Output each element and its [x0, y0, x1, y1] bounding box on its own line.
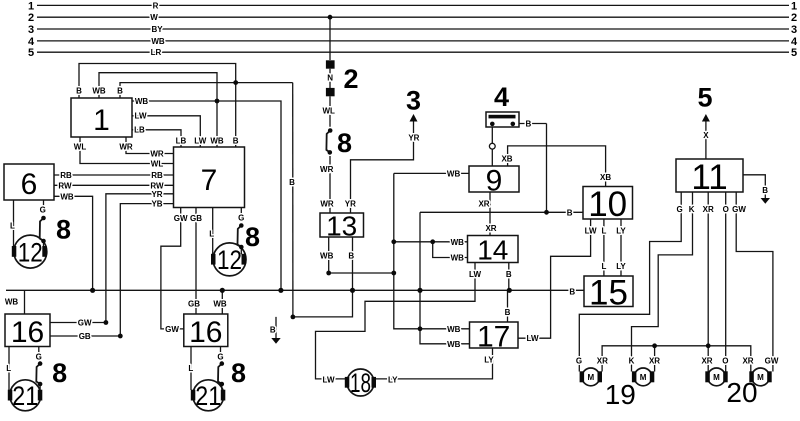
svg-text:12: 12	[18, 237, 43, 267]
svg-text:2: 2	[343, 64, 358, 94]
svg-text:G: G	[576, 356, 582, 365]
svg-text:GW: GW	[174, 214, 188, 223]
svg-text:WB: WB	[451, 238, 465, 247]
svg-text:N: N	[327, 73, 333, 82]
svg-text:L: L	[10, 222, 15, 231]
svg-text:BY: BY	[151, 25, 163, 34]
svg-text:B: B	[762, 186, 768, 195]
svg-text:WB: WB	[447, 325, 461, 334]
svg-text:XR: XR	[703, 205, 714, 214]
svg-text:XR: XR	[478, 199, 489, 208]
svg-text:WB: WB	[92, 87, 106, 96]
svg-text:G: G	[36, 353, 42, 362]
svg-text:L: L	[6, 364, 11, 373]
svg-text:5: 5	[791, 47, 797, 59]
svg-text:4: 4	[791, 36, 798, 48]
svg-text:8: 8	[245, 222, 260, 252]
svg-text:6: 6	[21, 168, 38, 201]
svg-text:WB: WB	[135, 97, 149, 106]
svg-text:YR: YR	[151, 190, 162, 199]
svg-text:16: 16	[11, 316, 44, 349]
svg-text:WB: WB	[451, 254, 465, 263]
svg-text:9: 9	[486, 164, 503, 197]
svg-text:B: B	[506, 270, 512, 279]
svg-text:G: G	[40, 206, 46, 215]
svg-text:R: R	[153, 1, 159, 10]
svg-text:RW: RW	[58, 181, 72, 190]
svg-text:M: M	[713, 373, 720, 382]
svg-text:B: B	[505, 308, 511, 317]
svg-text:LY: LY	[616, 227, 626, 236]
svg-text:RB: RB	[151, 171, 163, 180]
svg-text:G: G	[238, 214, 244, 223]
svg-text:WB: WB	[213, 300, 227, 309]
svg-text:LY: LY	[484, 356, 494, 365]
svg-text:WR: WR	[320, 165, 334, 174]
svg-text:XB: XB	[501, 154, 512, 163]
svg-text:10: 10	[588, 185, 627, 224]
svg-text:4: 4	[28, 36, 35, 48]
svg-text:L: L	[601, 262, 606, 271]
svg-text:M: M	[757, 373, 764, 382]
svg-text:XB: XB	[600, 173, 611, 182]
svg-text:L: L	[188, 364, 193, 373]
svg-text:LW: LW	[585, 227, 597, 236]
svg-text:YR: YR	[408, 134, 419, 143]
svg-text:LW: LW	[194, 137, 206, 146]
svg-text:O: O	[723, 205, 729, 214]
svg-text:XR: XR	[485, 224, 496, 233]
svg-text:WB: WB	[320, 252, 334, 261]
svg-text:GB: GB	[190, 214, 202, 223]
svg-text:YB: YB	[151, 200, 162, 209]
svg-text:LY: LY	[388, 375, 398, 384]
svg-text:8: 8	[337, 128, 352, 158]
svg-text:W: W	[150, 13, 158, 22]
svg-text:XR: XR	[649, 356, 660, 365]
svg-text:B: B	[76, 87, 82, 96]
svg-text:13: 13	[326, 211, 357, 242]
svg-text:WL: WL	[74, 142, 87, 151]
svg-text:8: 8	[231, 358, 246, 388]
svg-text:5: 5	[697, 83, 712, 113]
svg-text:WB: WB	[151, 37, 165, 46]
svg-text:14: 14	[477, 235, 508, 266]
svg-text:WB: WB	[60, 192, 74, 201]
svg-text:LB: LB	[176, 137, 187, 146]
svg-text:B: B	[348, 252, 354, 261]
svg-text:WB: WB	[447, 340, 461, 349]
svg-text:WR: WR	[119, 142, 133, 151]
svg-text:12: 12	[217, 245, 242, 275]
svg-text:17: 17	[477, 320, 510, 353]
svg-text:LW: LW	[135, 112, 147, 121]
svg-text:3: 3	[406, 86, 421, 116]
svg-text:WR: WR	[320, 200, 334, 209]
svg-text:GW: GW	[165, 325, 179, 334]
svg-text:LR: LR	[151, 48, 162, 57]
svg-text:XR: XR	[701, 356, 712, 365]
svg-text:LB: LB	[134, 126, 145, 135]
svg-text:1: 1	[791, 0, 797, 12]
svg-text:8: 8	[52, 358, 67, 388]
svg-text:21: 21	[195, 381, 221, 411]
svg-text:L: L	[601, 227, 606, 236]
svg-text:XR: XR	[597, 356, 608, 365]
svg-text:K: K	[629, 356, 635, 365]
svg-text:GB: GB	[79, 332, 91, 341]
svg-text:GW: GW	[765, 356, 779, 365]
svg-text:O: O	[722, 356, 728, 365]
svg-text:M: M	[640, 373, 647, 382]
svg-text:LW: LW	[469, 270, 481, 279]
svg-text:GB: GB	[188, 300, 200, 309]
svg-text:21: 21	[12, 381, 38, 411]
svg-text:B: B	[233, 137, 239, 146]
svg-text:B: B	[567, 208, 573, 217]
svg-text:WL: WL	[322, 107, 335, 116]
svg-text:L: L	[209, 229, 214, 238]
svg-text:K: K	[689, 205, 695, 214]
svg-text:GW: GW	[78, 319, 92, 328]
svg-text:19: 19	[605, 379, 636, 410]
svg-text:LW: LW	[323, 375, 335, 384]
svg-text:18: 18	[350, 368, 371, 398]
svg-text:RB: RB	[60, 171, 72, 180]
svg-text:20: 20	[726, 377, 757, 408]
svg-text:B: B	[117, 87, 123, 96]
svg-text:WR: WR	[150, 150, 164, 159]
svg-text:1: 1	[28, 0, 34, 12]
svg-text:G: G	[217, 353, 223, 362]
svg-text:2: 2	[28, 12, 34, 24]
svg-text:3: 3	[28, 24, 34, 36]
svg-text:B: B	[270, 326, 276, 335]
svg-text:3: 3	[791, 24, 797, 36]
svg-text:8: 8	[56, 215, 71, 245]
svg-text:G: G	[676, 205, 682, 214]
svg-text:2: 2	[791, 12, 797, 24]
svg-text:X: X	[703, 131, 709, 140]
svg-text:LY: LY	[616, 262, 626, 271]
svg-text:5: 5	[28, 47, 34, 59]
svg-text:XR: XR	[742, 356, 753, 365]
svg-text:11: 11	[691, 158, 727, 197]
svg-text:4: 4	[494, 82, 509, 112]
svg-text:16: 16	[189, 316, 222, 349]
svg-text:YR: YR	[345, 200, 356, 209]
svg-text:LW: LW	[527, 334, 539, 343]
svg-text:B: B	[569, 287, 575, 296]
svg-text:WB: WB	[447, 169, 461, 178]
svg-text:B: B	[289, 178, 295, 187]
svg-text:WB: WB	[5, 298, 19, 307]
svg-text:B: B	[526, 120, 532, 129]
svg-text:WL: WL	[151, 160, 164, 169]
svg-text:7: 7	[201, 164, 218, 197]
svg-text:15: 15	[589, 274, 628, 313]
svg-text:1: 1	[93, 104, 110, 137]
svg-text:GW: GW	[732, 205, 746, 214]
svg-text:WB: WB	[210, 137, 224, 146]
svg-text:M: M	[587, 373, 594, 382]
